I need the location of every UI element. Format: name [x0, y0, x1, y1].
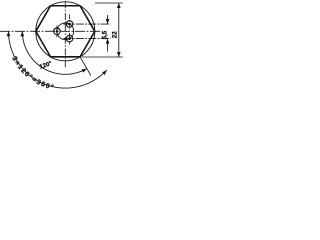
svg-text:22: 22: [111, 31, 118, 38]
svg-text:5,5: 5,5: [102, 30, 108, 39]
